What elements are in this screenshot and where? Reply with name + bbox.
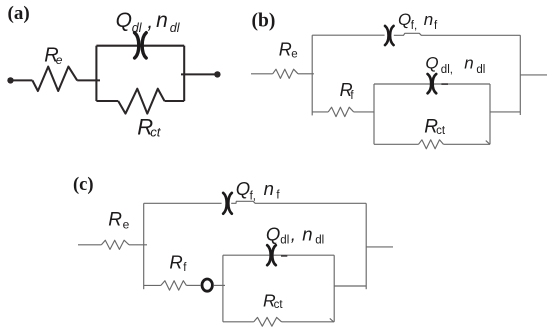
svg-text:(a): (a) [8,3,30,24]
resistor Re (a) [32,67,77,91]
svg-text:n: n [264,178,274,199]
node O (c) [202,279,212,291]
wire Re to box (a) [77,79,100,81]
inner box top wire (b) [374,83,490,85]
bottom wire left segment (a) [96,100,118,102]
svg-text:e: e [291,48,297,60]
bottom branch wire to Rf (c) [144,284,161,286]
CPE Qf symbol (c) [223,193,232,214]
wire output (a) [181,73,217,75]
wire output (b) [520,74,547,76]
top branch wire (b) [312,33,520,35]
inner box bottom wire left (c) [223,321,254,323]
box top edge wire (a) [96,45,184,47]
resistor Re (b) [273,69,298,78]
svg-text:e: e [56,53,63,67]
left vertical wire (b) [311,35,313,115]
svg-text:f,: f, [250,190,256,202]
resistor Rct (c) [254,317,282,326]
right vertical wire (c) [365,203,367,289]
wire Rf to O (c) [186,284,200,286]
inner box bottom wire right (c) [282,321,335,323]
wire input (c) [78,244,101,246]
svg-text:Q: Q [236,178,250,199]
wire Re to node (c) [129,244,147,246]
svg-text:dl: dl [280,235,289,247]
svg-text:n: n [302,224,312,245]
svg-text:R: R [108,210,122,231]
svg-text:n: n [156,9,168,32]
wire O to inner box (c) [214,284,225,286]
svg-text:ct: ct [150,125,162,140]
inner box bottom wire right (b) [443,143,490,145]
svg-text:(c): (c) [73,175,94,195]
arrow tick inner corner (c) [330,318,334,322]
wire dash after CPE (b) [441,83,448,85]
box left edge (a) [95,46,97,101]
arrow tick inner corner (b) [486,141,490,145]
wire Rf to inner box (b) [354,111,374,113]
svg-text:e: e [123,217,130,231]
wire input (a) [11,79,33,81]
bottom wire right segment (a) [165,100,185,102]
left vertical wire (c) [143,203,145,289]
svg-text:dl: dl [476,64,485,76]
inner box left edge (b) [373,84,375,144]
svg-text:f,: f, [411,20,417,32]
svg-text:Q: Q [425,54,438,73]
junction wire inner box to right rail (b) [490,111,520,113]
svg-text:n: n [464,54,473,73]
svg-text:Q: Q [266,224,280,245]
right vertical wire (b) [519,35,521,115]
svg-text:dl: dl [315,235,324,247]
wire dash after CPE (c) [281,255,287,257]
svg-text:n: n [424,10,433,29]
svg-text:,: , [291,224,296,245]
svg-text:ct: ct [436,125,446,137]
resistor Rct (b) [419,140,444,149]
wire input (b) [251,73,273,75]
resistor Rf (b) [328,107,353,116]
svg-text:,: , [147,10,153,33]
inner box bottom wire left (b) [374,143,419,145]
resistor Rct (a) [118,89,164,114]
top branch wire (c) [144,201,367,203]
svg-text:ct: ct [274,299,284,311]
CPE Qdl symbol (c) [267,245,276,265]
CPE Qdl symbol (b) [428,74,437,93]
junction wire inner box to right rail (c) [334,285,366,287]
svg-text:dl: dl [170,21,181,35]
resistor Rf (c) [161,281,187,290]
inner box right edge (b) [489,84,491,144]
svg-text:R: R [169,252,182,273]
CPE Qdl symbol (a) [135,33,147,58]
CPE Qf symbol (b) [385,26,394,45]
terminal dot right (a) [214,71,220,77]
svg-text:R: R [279,40,292,60]
box right edge (a) [183,46,185,101]
svg-text:Q: Q [116,9,132,32]
svg-text:Q: Q [398,10,411,29]
wire Re to node (b) [298,73,314,75]
resistor Re (c) [101,240,129,249]
svg-text:dl,: dl, [441,64,453,76]
bottom branch wire to Rf (b) [312,111,328,113]
wire output (c) [366,246,393,248]
inner box right edge (c) [333,255,335,322]
svg-text:dl: dl [132,21,143,35]
inner box top wire (c) [223,254,334,256]
inner box left edge (c) [222,255,224,322]
terminal dot left (a) [7,77,13,83]
svg-text:(b): (b) [252,10,276,31]
